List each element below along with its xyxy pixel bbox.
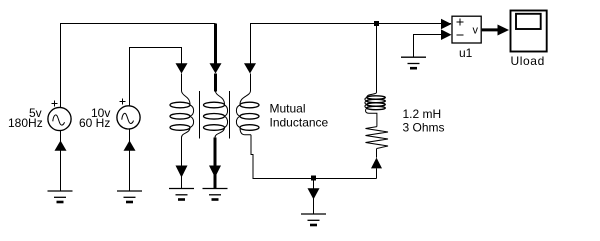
wire top rail 2 (winding 3 to u1 plus) bbox=[251, 24, 452, 65]
arrow into ground (down) bbox=[308, 188, 320, 199]
svg-text:Inductance: Inductance bbox=[270, 116, 329, 130]
svg-text:Mutual: Mutual bbox=[270, 102, 306, 116]
node junction bottom bbox=[311, 176, 316, 181]
svg-text:3 Ohms: 3 Ohms bbox=[403, 121, 445, 135]
wire winding 2 top stem (thick) bbox=[214, 24, 217, 65]
wire resistor to arrow bbox=[376, 149, 378, 158]
wire winding1 arrow to coil bbox=[181, 74, 183, 92]
wire u1 minus to ground bbox=[414, 35, 442, 58]
wire winding1 bottom stem bbox=[181, 138, 183, 189]
arrow into winding 2 top (down) bbox=[210, 63, 222, 73]
series RLC branch inductor bbox=[365, 93, 385, 127]
wire RL bottom stem bbox=[376, 168, 378, 178]
mutual inductance winding 2 coil bbox=[204, 92, 228, 138]
svg-text:Uload: Uload bbox=[511, 54, 545, 68]
ac source V1 5v 180Hz bbox=[48, 101, 71, 192]
scope block Uload bbox=[511, 11, 547, 52]
series RLC branch resistor zigzag bbox=[366, 127, 389, 149]
ground G2 bbox=[117, 191, 142, 202]
arrow into u1 plus input bbox=[441, 19, 452, 30]
wire top rail 1 (5v to winding 2) bbox=[61, 24, 216, 108]
core bar thin bbox=[199, 91, 201, 139]
ground G1 bbox=[48, 191, 73, 202]
voltage measurement block u1 bbox=[452, 16, 481, 43]
arrow into scope bbox=[498, 25, 510, 36]
svg-text:180Hz: 180Hz bbox=[8, 116, 43, 130]
mutual inductance winding 3 coil (mirrored) bbox=[236, 91, 259, 135]
core bar thick bbox=[229, 91, 231, 139]
wire winding3 arrow to coil bbox=[250, 74, 252, 92]
node junction top (RL branch tap) bbox=[374, 21, 379, 26]
svg-text:60 Hz: 60 Hz bbox=[79, 116, 110, 130]
mutual inductance winding 1 coil bbox=[170, 91, 194, 138]
wire winding2 arrow to coil (thick) bbox=[214, 74, 217, 92]
arrow into u1 minus input bbox=[441, 29, 452, 40]
arrow into V1 bottom (up) bbox=[55, 141, 67, 151]
arrow into V2 bottom (up) bbox=[124, 141, 136, 151]
ground G6 bbox=[401, 57, 426, 68]
wire RL branch top stem bbox=[376, 24, 378, 93]
wire 10v to winding 1 bbox=[130, 48, 182, 107]
arrow into RL branch bottom (up) bbox=[371, 158, 382, 169]
arrow into winding 1 top (down) bbox=[176, 63, 188, 73]
wire u1 output to scope (thick) bbox=[482, 28, 499, 31]
ac source V2 10v 60Hz bbox=[117, 99, 140, 192]
ground G4 bbox=[203, 189, 228, 200]
svg-text:u1: u1 bbox=[459, 46, 473, 60]
wire winding3 bottom to rail bbox=[251, 135, 377, 179]
svg-text:1.2 mH: 1.2 mH bbox=[403, 107, 442, 121]
ground G5 bbox=[301, 214, 326, 225]
arrow into winding 3 top (down) bbox=[244, 63, 256, 73]
arrow winding2 bottom (down) bbox=[209, 166, 221, 178]
ground G3 bbox=[169, 189, 194, 200]
wire junction to ground bbox=[313, 180, 315, 214]
svg-text:v: v bbox=[473, 25, 479, 37]
arrow winding1 bottom (down) bbox=[176, 166, 188, 178]
wire winding2 bottom stem (thick) bbox=[214, 138, 217, 189]
